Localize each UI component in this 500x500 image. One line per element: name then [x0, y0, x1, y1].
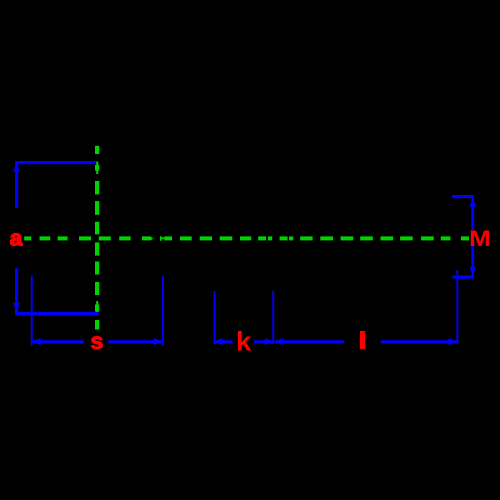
dimension k : line left segment — [215, 340, 233, 343]
label l — [360, 331, 365, 349]
dimension a : witness top — [15, 161, 96, 164]
dimension M : witness bottom — [453, 276, 475, 279]
dimension l : extension right — [456, 270, 458, 344]
dimension s : arrow right — [154, 338, 162, 345]
dimension a : arrow up — [13, 164, 20, 172]
dimension s : arrow left — [33, 338, 41, 345]
dimension l : arrow left — [275, 338, 283, 345]
svg-text:k: k — [236, 326, 252, 356]
svg-text:M: M — [469, 227, 491, 251]
dimension s : extension left — [31, 276, 33, 347]
dimension a : vertical line lower — [15, 268, 18, 313]
dimension M : arrow up — [469, 198, 476, 206]
dimension s : extension right — [162, 276, 164, 347]
dimension s : line left segment — [33, 340, 84, 343]
dimension k : extension left — [214, 291, 216, 344]
dimension k : arrow left — [215, 338, 223, 345]
dimension M : arrow down — [469, 267, 476, 275]
horizontal center line dashes (screw axis) — [24, 236, 31, 240]
dimension k : line right segment — [254, 340, 273, 343]
dimension k : arrow right — [265, 338, 273, 345]
dimension M : vertical line lower — [471, 245, 474, 277]
svg-text:a: a — [10, 225, 23, 250]
dimension s : line right segment — [108, 340, 162, 343]
dimension M : witness top — [452, 195, 474, 198]
dimension l : line left segment — [275, 340, 344, 343]
dimension l : line right segment — [381, 340, 457, 343]
vertical center line dashes (head axis) — [95, 146, 99, 154]
svg-text:s: s — [90, 328, 103, 354]
dimension k : extension right (shared with l) — [272, 291, 274, 344]
dimension a : arrow down — [13, 303, 20, 311]
dimension l : arrow right — [449, 338, 457, 345]
dimension a : vertical line upper — [15, 161, 18, 208]
dimension M : vertical line upper — [471, 197, 474, 230]
dimension a : witness bottom — [15, 312, 99, 315]
